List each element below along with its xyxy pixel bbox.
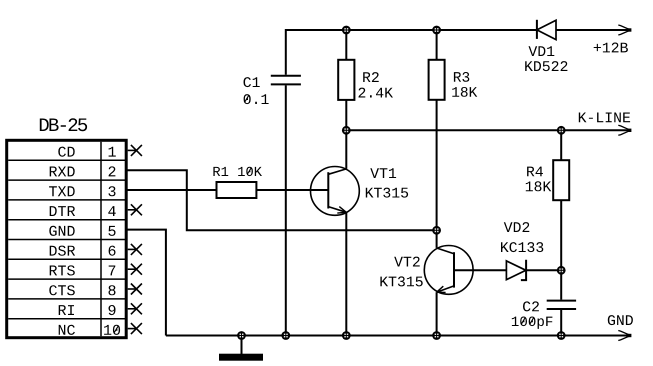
pin 3 number xyxy=(108,186,115,196)
label VT2 type xyxy=(380,276,422,286)
wire R2 to K-LINE node and VT1 collector xyxy=(345,100,347,169)
pin 2 RXD label xyxy=(50,167,75,177)
pin 3 TXD label xyxy=(49,186,75,196)
ground rail wire xyxy=(166,335,628,337)
resistor R3 body xyxy=(429,60,445,100)
arrow +12B xyxy=(618,25,631,35)
top +12 rail wire with corner at C1 column xyxy=(286,30,537,75)
label C2 xyxy=(523,301,539,311)
pin 9 RI label xyxy=(59,305,74,315)
label R2 xyxy=(363,72,379,82)
junction node rail / C1 xyxy=(281,331,290,340)
junction node K-LINE / R4 xyxy=(557,126,566,135)
junction node top rail / R2 xyxy=(342,26,351,35)
zener diode VD2 triangle xyxy=(506,261,526,280)
pin 1 CD label xyxy=(58,147,74,157)
pin 10 NC label xyxy=(59,325,75,335)
pin 10 number xyxy=(104,325,120,335)
diode VD1 cathode bar xyxy=(536,20,538,39)
junction node VD2 / R4 / C2 xyxy=(557,266,566,275)
junction node rail / VT1 emitter xyxy=(342,331,351,340)
pin 4 DTR label xyxy=(50,206,75,216)
label VT1 type xyxy=(366,188,408,198)
wire R1 to VT1 base xyxy=(256,189,328,191)
wire top rail to R2 xyxy=(345,30,347,60)
no-connect X pin 7 xyxy=(128,264,142,275)
label R2 value xyxy=(359,88,394,98)
pin 6 number xyxy=(109,246,116,256)
label R4 xyxy=(527,167,543,177)
junction node rail / ground symbol xyxy=(237,331,246,340)
junction node top rail / R3 xyxy=(432,26,441,35)
wire C1 bottom to ground rail xyxy=(285,85,287,335)
no-connect X pin 6 xyxy=(128,244,142,255)
pin 9 number xyxy=(109,305,116,315)
DB-25 title xyxy=(40,118,87,131)
label VD2 type xyxy=(501,242,543,252)
wire K-LINE node to R4 xyxy=(560,130,562,160)
label VT2 xyxy=(394,257,420,267)
label R3 value xyxy=(452,87,477,97)
diode VD1 triangle xyxy=(537,20,556,39)
wire VT1 emitter to ground rail xyxy=(345,212,347,335)
K-LINE wire xyxy=(346,129,628,131)
transistor VT2 xyxy=(424,246,473,295)
pin 7 RTS label xyxy=(50,265,75,275)
no-connect X pin 10 xyxy=(128,323,142,334)
label C1 xyxy=(244,77,260,87)
wire TXD pin3 to R1 xyxy=(127,189,217,191)
resistor R2 body xyxy=(338,60,354,100)
junction node RXD / VT2 collector xyxy=(432,226,441,235)
arrow GND xyxy=(618,331,631,341)
no-connect X pin 4 xyxy=(128,204,142,215)
junction node K-LINE / R2 xyxy=(342,126,351,135)
DB-25 connector body xyxy=(7,140,127,337)
label R4 value xyxy=(526,181,552,191)
label VT1 xyxy=(370,168,396,178)
pin 5 GND label xyxy=(49,226,74,236)
wire C2 bottom to ground rail xyxy=(560,310,562,336)
wire RXD pin2 to VT2 collector node xyxy=(127,170,437,230)
label GND xyxy=(608,315,633,325)
pin 7 number xyxy=(109,266,116,276)
wire VD2 to R4/C2 node xyxy=(526,269,561,271)
arrow K-LINE xyxy=(618,125,631,135)
junction node rail / VT2 emitter xyxy=(432,331,441,340)
transistor VT1 xyxy=(311,167,360,216)
label VD1 type xyxy=(525,61,567,71)
wire VT2 emitter to ground rail xyxy=(436,292,438,335)
capacitor C1 plates xyxy=(271,76,301,85)
label C1 value xyxy=(244,94,269,104)
junction node rail / C2 xyxy=(557,331,566,340)
pin 4 number xyxy=(108,206,115,216)
wire R3 down to VT2 collector node xyxy=(436,100,438,248)
no-connect X pin 1 xyxy=(128,145,142,156)
resistor R1 body xyxy=(217,182,257,198)
wire VT2 base to VD2 xyxy=(454,269,506,271)
ground symbol xyxy=(220,336,262,360)
wire VD1 to +12B arrow xyxy=(556,29,628,31)
pin 8 CTS label xyxy=(49,285,75,295)
label +12B xyxy=(594,43,628,53)
pin 2 number xyxy=(109,166,116,176)
label C2 value xyxy=(512,317,553,329)
label R1 value xyxy=(213,167,262,176)
label R3 xyxy=(454,72,469,82)
pin 8 number xyxy=(109,285,116,295)
pin 1 number xyxy=(109,147,116,157)
resistor R4 body xyxy=(553,160,569,200)
pin 6 DSR label xyxy=(50,246,75,256)
label VD1 xyxy=(529,46,555,56)
capacitor C2 plates xyxy=(547,301,576,309)
label K-LINE xyxy=(579,113,630,123)
wire top rail to R3 xyxy=(436,30,438,60)
wire R4 to VD2 node and C2 xyxy=(560,200,562,299)
pin 5 number xyxy=(108,226,115,236)
zener diode VD2 cathode bar with hook xyxy=(521,260,526,280)
wire GND pin5 down to ground rail xyxy=(127,230,166,336)
no-connect X pin 9 xyxy=(128,303,142,314)
label VD2 xyxy=(504,222,530,232)
no-connect X pin 8 xyxy=(128,284,142,295)
